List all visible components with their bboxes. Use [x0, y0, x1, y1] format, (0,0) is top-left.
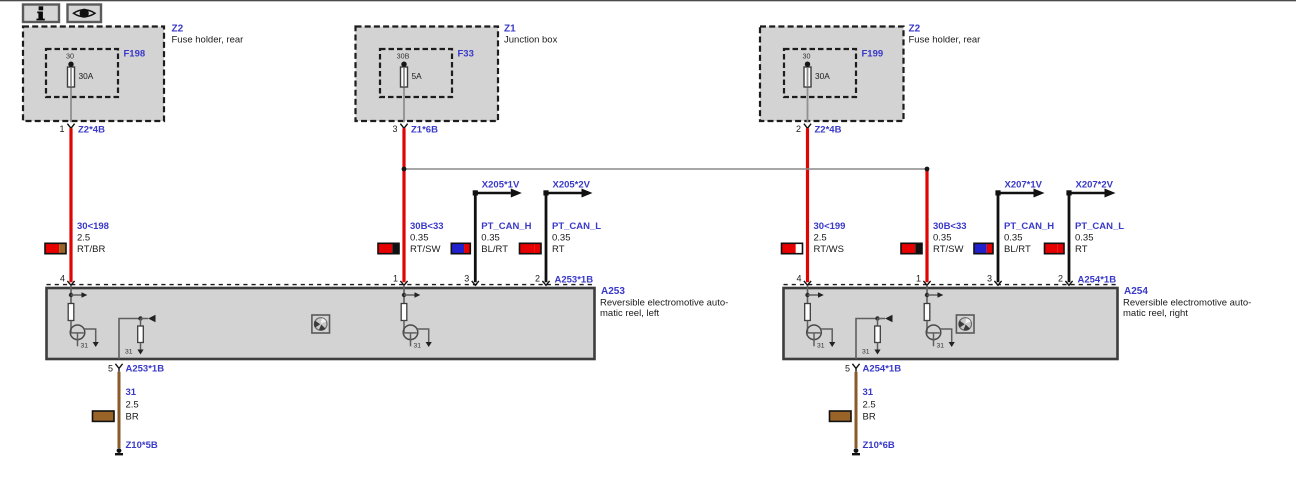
wire label PT_CAN_L RT [1045, 221, 1125, 255]
svg-text:31: 31 [862, 348, 870, 355]
wire 30<198 RT/BR (red) from Z2*4B to A253 pin 4 [69, 128, 72, 282]
A253 drive 2 internal wire from pin [403, 285, 405, 303]
svg-text:BL/RT: BL/RT [1004, 244, 1031, 255]
fuse F199 element, 30A [804, 61, 830, 87]
svg-text:RT: RT [1075, 244, 1088, 255]
junction box Z1 box [356, 27, 499, 122]
A254 sense resistor [875, 319, 881, 350]
svg-text:Fuse holder, rear: Fuse holder, rear [172, 35, 244, 46]
component A254 label [1123, 286, 1251, 319]
wire label 31 2.5 BR [93, 387, 139, 423]
svg-text:31: 31 [863, 387, 874, 398]
svg-text:1: 1 [393, 274, 398, 284]
svg-text:Junction box: Junction box [504, 35, 558, 46]
ground point Z10*5B [115, 440, 158, 456]
svg-text:0.35: 0.35 [552, 233, 571, 244]
svg-text:30<199: 30<199 [814, 221, 846, 232]
A253 drive 1 wire resistor to clutch [70, 321, 72, 334]
wire label PT_CAN_H BL/RT [451, 221, 531, 255]
svg-text:2.5: 2.5 [126, 399, 139, 410]
svg-text:30B: 30B [397, 52, 410, 61]
component A253 label [600, 286, 728, 319]
svg-text:RT/BR: RT/BR [77, 244, 105, 255]
A253 drive 2 wire to internal ground [417, 329, 429, 342]
svg-text:RT/WS: RT/WS [814, 244, 844, 255]
wire from fuse F199 to box edge [807, 64, 809, 122]
svg-text:Z2: Z2 [172, 24, 184, 35]
svg-text:31: 31 [937, 342, 945, 349]
pin 5 of A253 [108, 363, 164, 374]
A254 drive 1 wire to internal ground [820, 329, 832, 342]
fuse F199 pin label 30 [803, 52, 811, 61]
A253 motor symbol [312, 315, 330, 333]
pin 3 connector [987, 274, 1002, 286]
wire label 31 2.5 BR [830, 387, 876, 423]
fuse F198 pin label 30 [66, 52, 74, 61]
A253 drive 1 internal wire from pin [70, 285, 72, 303]
A254 drive 2 clutch/solenoid symbol [926, 325, 941, 346]
svg-text:Fuse holder, rear: Fuse holder, rear [909, 35, 981, 46]
A254 drive 2 wire to internal ground [940, 329, 952, 342]
view (eye) button [68, 5, 102, 23]
svg-text:4: 4 [60, 274, 65, 284]
svg-text:31: 31 [126, 387, 137, 398]
svg-text:30: 30 [803, 52, 811, 61]
fuse F198 inner box [46, 49, 145, 98]
svg-text:X207*2V: X207*2V [1076, 179, 1114, 190]
svg-text:BL/RT: BL/RT [481, 244, 508, 255]
wire (CAN) from X207*2V down [1068, 193, 1071, 282]
svg-text:Z1: Z1 [504, 24, 516, 35]
component label Z2 [172, 24, 244, 46]
A253 sense resistor [138, 319, 144, 350]
svg-text:X207*1V: X207*1V [1005, 179, 1043, 190]
A254 drive 1 wire resistor to clutch [807, 321, 809, 334]
component A253 box [47, 288, 595, 359]
top border line [0, 0, 1296, 1]
pin 4 connector [60, 274, 75, 286]
node X207*2V arrow [1066, 179, 1115, 197]
svg-text:2: 2 [535, 274, 540, 284]
connector Z1*6B at fuse output [400, 124, 438, 136]
pin 3 of Z1 [392, 124, 397, 134]
fuse holder Z2 rear (right) box [760, 27, 904, 122]
svg-text:30A: 30A [815, 71, 830, 81]
pin 2 of Z2 [796, 124, 801, 134]
wire 31 BR (brown) from A253 pin 5 to Z10*5B [118, 372, 121, 448]
svg-text:RT/SW: RT/SW [410, 244, 440, 255]
A254 drive 2 internal wire from pin [926, 285, 928, 303]
A254 sense ground 31 [862, 348, 881, 355]
wire 31 BR (brown) from A254 pin 5 to Z10*6B [855, 372, 858, 448]
svg-text:A254*1B: A254*1B [1078, 275, 1117, 286]
svg-text:RT/SW: RT/SW [933, 244, 963, 255]
component A254 box [784, 288, 1118, 359]
svg-text:PT_CAN_L: PT_CAN_L [552, 221, 601, 232]
A254 drive 1 internal wire from pin [807, 285, 809, 303]
pin 5 of A254 [845, 363, 901, 374]
svg-text:31: 31 [125, 348, 133, 355]
A253 drive 1 wire to internal ground [84, 329, 96, 342]
svg-text:Z10*5B: Z10*5B [126, 440, 158, 451]
svg-text:3: 3 [392, 124, 397, 134]
connector strip A254*1B [784, 275, 1118, 286]
svg-text:30B<33: 30B<33 [933, 221, 967, 232]
svg-text:31: 31 [81, 342, 89, 349]
A254 drive 2 resistor [924, 304, 930, 321]
svg-text:4: 4 [796, 274, 801, 284]
svg-text:2.5: 2.5 [814, 233, 827, 244]
info button [23, 5, 59, 23]
fuse F198 element, 30A [68, 61, 94, 87]
A254 sense ground riser wire [856, 319, 878, 360]
A253 drive 2 clutch/solenoid symbol [403, 325, 418, 346]
A254 drive 1 resistor [805, 304, 811, 321]
junction on wire from F33 [402, 167, 407, 172]
svg-text:30B<33: 30B<33 [410, 221, 444, 232]
svg-text:PT_CAN_L: PT_CAN_L [1075, 221, 1124, 232]
A253 sense ground 31 [125, 348, 144, 355]
fuse F33 pin label 30B [397, 52, 410, 61]
svg-text:X205*1V: X205*1V [482, 179, 520, 190]
svg-text:0.35: 0.35 [1075, 233, 1094, 244]
connector Z2*4B at fuse output [804, 124, 842, 136]
wire label PT_CAN_L RT [520, 221, 602, 255]
svg-text:31: 31 [817, 342, 825, 349]
svg-text:A253*1B: A253*1B [555, 275, 594, 286]
svg-text:Z2*4B: Z2*4B [815, 124, 842, 135]
pin 3 connector [464, 274, 479, 286]
svg-text:RT: RT [552, 244, 565, 255]
svg-text:BR: BR [863, 412, 876, 423]
pin 1 connector [916, 274, 931, 286]
svg-text:A254: A254 [1124, 286, 1148, 297]
pin 4 connector [796, 274, 811, 286]
svg-text:30A: 30A [79, 71, 94, 81]
svg-text:0.35: 0.35 [410, 233, 429, 244]
svg-text:F199: F199 [862, 49, 884, 60]
A254 drive 1 ground 31 [817, 342, 835, 349]
svg-text:A253: A253 [601, 286, 625, 297]
svg-text:Z10*6B: Z10*6B [863, 440, 895, 451]
A253 drive 2 ground 31 [414, 342, 432, 349]
wire label 30B<33 RT/SW [378, 221, 444, 255]
A253 drive 2 internal branch arrow [402, 292, 421, 298]
connector strip A253*1B [47, 275, 595, 286]
component label Z2 [909, 24, 981, 46]
wire label 30B<33 RT/SW [901, 221, 967, 255]
A253 sense ground riser wire [119, 319, 141, 360]
svg-text:0.35: 0.35 [481, 233, 500, 244]
wire from fuse F33 to box edge [403, 64, 405, 122]
svg-text:PT_CAN_H: PT_CAN_H [1004, 221, 1054, 232]
pin 1 of Z2 [59, 124, 64, 134]
node X205*1V arrow [473, 179, 522, 197]
A254 drive 2 internal branch arrow [925, 292, 944, 298]
svg-text:5A: 5A [412, 71, 423, 81]
svg-text:Z2*4B: Z2*4B [78, 124, 105, 135]
fuse F199 inner box [784, 49, 883, 98]
fuse holder Z2 rear (left) box [23, 27, 164, 122]
wire 30<199 RT/WS (red) from Z2*4B to A254 pin 4 [806, 128, 809, 282]
node X207*1V arrow [995, 179, 1044, 197]
ground point Z10*6B [852, 440, 895, 456]
wire (CAN) from X205*2V down [545, 193, 548, 282]
wire label PT_CAN_H BL/RT [974, 221, 1054, 255]
component label Z1 [504, 24, 558, 46]
A253 drive 1 internal branch arrow [69, 292, 88, 298]
pin 2 connector [535, 274, 550, 286]
A254 sense incoming arrow [875, 315, 892, 323]
wire from fuse F198 to box edge [70, 64, 72, 122]
svg-text:1: 1 [916, 274, 921, 284]
A253 sense incoming arrow [138, 315, 155, 323]
A254 drive 2 wire resistor to clutch [926, 321, 928, 334]
A253 drive 2 wire resistor to clutch [403, 321, 405, 334]
svg-text:Z2: Z2 [909, 24, 921, 35]
svg-text:30<198: 30<198 [77, 221, 109, 232]
svg-text:2: 2 [796, 124, 801, 134]
svg-text:2: 2 [1058, 274, 1063, 284]
svg-text:matic reel, left: matic reel, left [600, 308, 659, 319]
svg-text:PT_CAN_H: PT_CAN_H [481, 221, 531, 232]
fuse F33 inner box [380, 49, 474, 98]
A254 motor symbol [956, 315, 974, 333]
A253 drive 2 resistor [401, 304, 407, 321]
A254 drive 1 clutch/solenoid symbol [807, 325, 822, 346]
svg-text:A253*1B: A253*1B [126, 364, 165, 375]
node X205*2V arrow [543, 179, 592, 197]
wire 30B<33 RT/SW (red) from Z1*6B to A253 pin 1 [402, 128, 405, 282]
wire label 30<199 RT/WS [782, 221, 846, 255]
svg-text:A254*1B: A254*1B [863, 364, 902, 375]
wire 30B<33 RT/SW (red) branch to A254 pin 1 [925, 169, 928, 282]
fuse F33 element, 5A [401, 61, 423, 87]
svg-text:X205*2V: X205*2V [553, 179, 591, 190]
wire (CAN) from X207*1V down [997, 193, 1000, 282]
wire label 30<198 RT/BR [45, 221, 109, 255]
A253 drive 1 ground 31 [81, 342, 99, 349]
A253 drive 1 resistor [68, 304, 74, 321]
svg-text:F198: F198 [124, 49, 146, 60]
svg-text:30: 30 [66, 52, 74, 61]
horizontal 30B bus wire [404, 168, 927, 170]
svg-text:1: 1 [59, 124, 64, 134]
wire (CAN) from X205*1V down [474, 193, 477, 282]
A254 drive 2 ground 31 [937, 342, 955, 349]
svg-text:BR: BR [126, 412, 139, 423]
svg-text:0.35: 0.35 [1004, 233, 1023, 244]
svg-text:31: 31 [414, 342, 422, 349]
svg-text:5: 5 [108, 363, 113, 373]
svg-text:3: 3 [464, 274, 469, 284]
connector Z2*4B at fuse output [67, 124, 105, 136]
junction at A254 branch [925, 167, 930, 172]
svg-text:Z1*6B: Z1*6B [411, 124, 438, 135]
svg-text:5: 5 [845, 363, 850, 373]
pin 2 connector [1058, 274, 1073, 286]
A253 drive 1 clutch/solenoid symbol [70, 325, 85, 346]
svg-text:3: 3 [987, 274, 992, 284]
svg-text:0.35: 0.35 [933, 233, 952, 244]
svg-text:2.5: 2.5 [77, 233, 90, 244]
svg-text:2.5: 2.5 [863, 399, 876, 410]
pin 1 connector [393, 274, 408, 286]
svg-text:F33: F33 [458, 49, 474, 60]
A254 drive 1 internal branch arrow [805, 292, 824, 298]
svg-text:matic reel, right: matic reel, right [1123, 308, 1188, 319]
